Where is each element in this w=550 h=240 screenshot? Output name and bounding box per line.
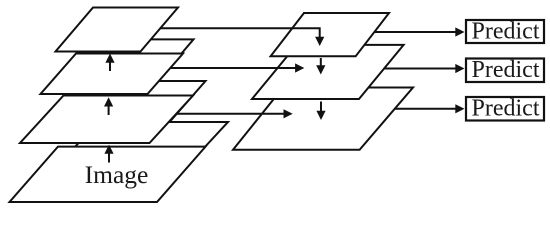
arrowhead U1 up: [105, 54, 114, 63]
predict box 2: [466, 59, 544, 83]
arrowhead predict2 right: [455, 64, 464, 73]
up arrow U2 (L3 to L2): [108, 106, 110, 116]
arrowhead A2 down: [316, 65, 325, 74]
feature map B3 (bottom-right sheet, back): [233, 88, 413, 150]
arrowhead lateral1 elbow down: [315, 37, 324, 46]
arrowhead predict3 right: [455, 104, 464, 113]
lateral connection 3: [176, 113, 284, 115]
svg-text:Image: Image: [85, 160, 149, 189]
down arrow A3 (B2 to B3): [320, 102, 322, 112]
feature map B1 (top-right sheet, front): [271, 13, 389, 56]
up arrow U3 (image to L3): [108, 153, 110, 163]
predict arrow 2: [384, 68, 456, 70]
arrowhead U3 up: [104, 145, 113, 154]
arrowhead lateral2 right: [295, 63, 304, 72]
arrowhead predict1 right: [455, 27, 464, 36]
predict box 1: [466, 20, 544, 43]
image sheet L4: [10, 147, 206, 202]
feature map L3: [20, 96, 193, 144]
arrowhead lateral3 right: [284, 109, 293, 118]
hidden sheet M2 (behind level-3): [54, 122, 228, 170]
lateral connection 2: [171, 67, 296, 69]
up arrow U1 (L2 to L1): [109, 62, 111, 71]
svg-text:Predict: Predict: [472, 19, 540, 45]
lateral connection 1 with elbow down into B1: [160, 28, 319, 37]
predict arrow 1: [374, 31, 456, 33]
predict box 3: [466, 97, 544, 121]
predict arrow 3: [395, 108, 456, 110]
down arrow A2 (B1 to B2): [320, 58, 322, 66]
svg-text:Predict: Predict: [472, 96, 540, 122]
svg-text:Predict: Predict: [472, 57, 540, 83]
feature map L1 (top-left sheet): [56, 8, 179, 52]
feature map L2: [41, 54, 184, 95]
hidden sheet M1 (behind level-2): [63, 81, 206, 122]
feature map B2 (middle-right sheet): [252, 45, 404, 99]
arrowhead U2 up: [104, 97, 113, 106]
arrowhead A3 down: [316, 111, 325, 120]
hidden sheet M0 (behind level-1): [71, 39, 194, 83]
